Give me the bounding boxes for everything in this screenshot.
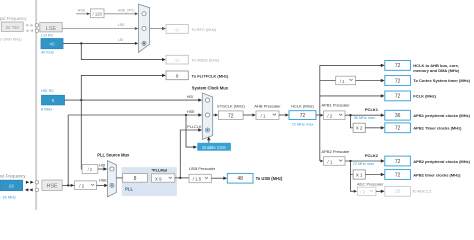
svg-text:USB Prescaler: USB Prescaler xyxy=(189,166,216,171)
svg-text:(0-1000 KHz): (0-1000 KHz) xyxy=(0,36,22,41)
svg-text:4 - 16 MHz: 4 - 16 MHz xyxy=(0,194,16,199)
svg-text:72: 72 xyxy=(300,113,306,119)
svg-text:Input Frequency: Input Frequency xyxy=(0,16,27,21)
svg-text:8: 8 xyxy=(134,176,137,182)
svg-text:/ 1.5: / 1.5 xyxy=(193,177,202,182)
svg-text:SYSCLK (MHz): SYSCLK (MHz) xyxy=(217,104,245,109)
svg-text:APB2 peripheral clocks (MHz): APB2 peripheral clocks (MHz) xyxy=(413,159,470,164)
svg-text:LSI RC: LSI RC xyxy=(41,33,54,38)
svg-text:*PLLMul: *PLLMul xyxy=(152,168,168,173)
svg-text:40: 40 xyxy=(49,42,55,48)
svg-text:System Clock Mux: System Clock Mux xyxy=(192,85,229,90)
svg-text:HSI RC: HSI RC xyxy=(41,88,54,93)
svg-text:APB2 Prescaler: APB2 Prescaler xyxy=(322,149,351,154)
svg-text:HSE: HSE xyxy=(46,183,57,189)
svg-text:HSE: HSE xyxy=(78,8,86,12)
svg-text:APB1 Timer clocks (MHz): APB1 Timer clocks (MHz) xyxy=(413,126,462,131)
svg-text:LSE: LSE xyxy=(118,23,126,27)
svg-text:36: 36 xyxy=(395,189,401,195)
svg-text:PLLCLK: PLLCLK xyxy=(187,125,202,129)
svg-text:40 KHz: 40 KHz xyxy=(41,49,54,54)
svg-text:16: 16 xyxy=(9,183,15,189)
svg-text:48: 48 xyxy=(237,176,243,182)
svg-text:72: 72 xyxy=(395,78,401,84)
svg-text:To FLITFCLK (MHz): To FLITFCLK (MHz) xyxy=(192,73,229,78)
svg-text:APB1 peripheral clocks (MHz): APB1 peripheral clocks (MHz) xyxy=(413,113,470,118)
svg-text:To ADC1,2: To ADC1,2 xyxy=(412,189,432,194)
svg-text:AHB Prescaler: AHB Prescaler xyxy=(254,104,281,109)
svg-text:72: 72 xyxy=(395,172,401,178)
svg-text:FCLK (MHz): FCLK (MHz) xyxy=(413,94,436,99)
svg-text:HSI: HSI xyxy=(187,95,193,99)
svg-text:72: 72 xyxy=(395,159,401,165)
svg-text:memory and DMA (MHz): memory and DMA (MHz) xyxy=(413,68,460,73)
svg-text:To RTC (KHz): To RTC (KHz) xyxy=(192,27,217,32)
svg-text:72: 72 xyxy=(395,126,401,132)
svg-text:X 1: X 1 xyxy=(356,172,363,177)
svg-text:8: 8 xyxy=(176,74,179,79)
svg-text:72: 72 xyxy=(395,94,401,100)
svg-text:/ 1: / 1 xyxy=(261,113,266,118)
svg-text:32 768: 32 768 xyxy=(5,25,19,30)
svg-text:APB1 Prescaler: APB1 Prescaler xyxy=(322,102,351,107)
svg-text:PLL: PLL xyxy=(125,186,133,191)
svg-text:PCLK1: PCLK1 xyxy=(365,107,379,112)
svg-text:LSI: LSI xyxy=(118,38,124,42)
svg-text:To Cortex System timer (MHz): To Cortex System timer (MHz) xyxy=(413,78,470,83)
svg-text:To IWDG (KHz): To IWDG (KHz) xyxy=(192,58,220,63)
svg-text:LSE: LSE xyxy=(46,26,57,32)
svg-text:HSE: HSE xyxy=(99,179,107,183)
svg-text:40: 40 xyxy=(175,27,181,32)
svg-text:HSI: HSI xyxy=(99,164,105,168)
svg-text:PCLK2: PCLK2 xyxy=(365,153,379,158)
svg-text:X 9: X 9 xyxy=(155,176,162,181)
svg-text:/ 1: / 1 xyxy=(327,159,332,164)
svg-text:/ 2: / 2 xyxy=(327,114,332,119)
svg-text:/ 1: / 1 xyxy=(340,79,345,84)
svg-text:/ 2: / 2 xyxy=(360,190,365,195)
svg-text:40: 40 xyxy=(175,58,181,63)
svg-text:8 MHz: 8 MHz xyxy=(41,107,52,112)
svg-text:36: 36 xyxy=(395,113,401,119)
svg-text:HSE_RTC: HSE_RTC xyxy=(118,8,135,12)
svg-text:72 MHz max: 72 MHz max xyxy=(353,162,374,166)
svg-text:To USB (MHz): To USB (MHz) xyxy=(256,176,283,181)
svg-text:8: 8 xyxy=(52,98,55,104)
svg-text:/ 2: / 2 xyxy=(79,183,84,188)
svg-text:72: 72 xyxy=(395,63,401,69)
svg-text:/ 2: / 2 xyxy=(88,167,93,172)
svg-text:72: 72 xyxy=(228,113,234,119)
svg-text:/ 128: / 128 xyxy=(93,12,103,17)
svg-text:X 2: X 2 xyxy=(356,126,363,131)
svg-text:HCLK (MHz): HCLK (MHz) xyxy=(291,104,314,109)
svg-text:HSE: HSE xyxy=(187,110,195,114)
svg-text:PLL Source Mux: PLL Source Mux xyxy=(97,152,130,157)
svg-text:ADC Prescaler: ADC Prescaler xyxy=(357,181,384,186)
svg-text:72 MHz max: 72 MHz max xyxy=(292,122,314,127)
svg-text:36 MHz max: 36 MHz max xyxy=(354,116,375,120)
svg-text:Input Frequency: Input Frequency xyxy=(0,173,26,178)
svg-text:Enable CSS: Enable CSS xyxy=(202,145,226,150)
svg-text:APB2 timer clocks (MHz): APB2 timer clocks (MHz) xyxy=(413,172,461,177)
